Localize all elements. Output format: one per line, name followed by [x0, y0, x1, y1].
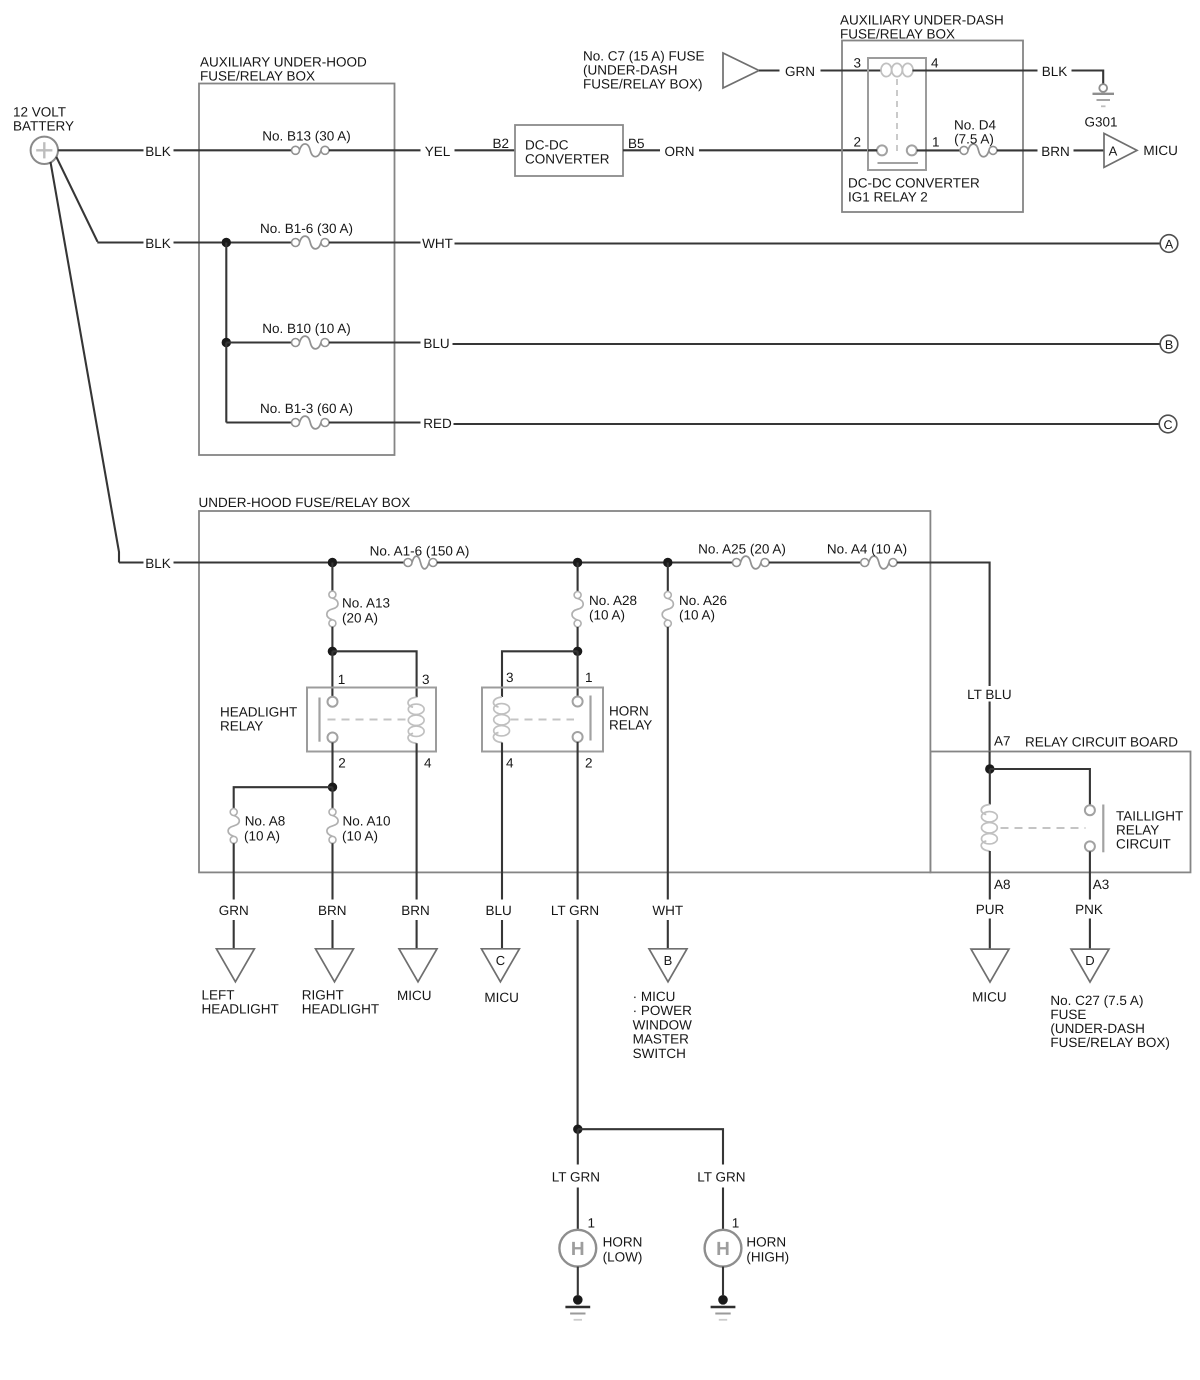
switch circles taillight relay: [1085, 805, 1095, 851]
dashed armature line aux relay: [896, 79, 898, 156]
fuse No. A8 (10 A): [228, 809, 239, 844]
fuse No. B1-6 (30 A): [292, 236, 330, 249]
wire headlight relay pin 2 down: [331, 743, 333, 788]
svg-text:WHT: WHT: [652, 903, 683, 918]
svg-text:B5: B5: [628, 136, 645, 151]
relay HORN RELAY rectangle: [482, 688, 603, 752]
svg-text:C: C: [496, 953, 505, 968]
connector triangle right headlight: [316, 949, 354, 982]
svg-text:FUSE/RELAY BOX: FUSE/RELAY BOX: [840, 27, 955, 42]
label 12 VOLT BATTERY: [13, 104, 74, 133]
svg-text:(LOW): (LOW): [603, 1250, 643, 1265]
svg-text:MICU: MICU: [1143, 143, 1178, 158]
svg-text:1: 1: [932, 135, 940, 150]
svg-text:MICU: MICU: [972, 990, 1007, 1005]
fuse No. A25 (20 A): [733, 556, 770, 569]
label MICU POWER WINDOW MASTER SWITCH: [633, 989, 692, 1061]
wire BRN to connector A triangle: [1074, 149, 1105, 151]
switch bar taillight relay: [1102, 805, 1104, 853]
wire WHT to connector B triangle: [667, 920, 669, 949]
wire fuse B13 to YEL: [329, 149, 421, 151]
svg-text:BLK: BLK: [145, 556, 171, 571]
wire junction to fuse A8: [234, 787, 333, 809]
svg-text:AUXILIARY UNDER-DASH: AUXILIARY UNDER-DASH: [840, 13, 1004, 28]
svg-text:A: A: [1165, 237, 1174, 251]
wire row5 BLK segment: [119, 561, 144, 563]
wire relay pin 2 stub: [868, 149, 877, 151]
svg-text:(HIGH): (HIGH): [746, 1250, 789, 1265]
fuse No. B1-3 (60 A): [292, 416, 330, 429]
wire bus junction down to fuse A26: [667, 563, 669, 592]
svg-text:3: 3: [506, 670, 514, 685]
svg-text:(UNDER-DASH: (UNDER-DASH: [583, 63, 678, 78]
fuse No. B10 (10 A): [292, 336, 330, 349]
svg-text:FUSE/RELAY BOX: FUSE/RELAY BOX: [200, 69, 315, 84]
svg-text:4: 4: [506, 756, 514, 771]
wire BRN to MICU triangle: [416, 920, 418, 949]
switch circles horn relay: [573, 697, 583, 743]
wire BRN to right headlight triangle: [331, 920, 333, 949]
connector triangle MICU taillight: [971, 949, 1009, 982]
label No. C27 (7.5 A) FUSE (UNDER-DASH FUSE/RELAY BOX): [1050, 993, 1170, 1050]
horn low symbol: [559, 1230, 596, 1267]
label No. A26 (10 A): [679, 593, 727, 623]
svg-text:MICU: MICU: [484, 990, 519, 1005]
wire BLK into under-hood box bus: [174, 561, 405, 563]
connector triangle A to MICU: [1104, 133, 1137, 167]
connector triangle D: [1071, 949, 1109, 982]
svg-text:MICU: MICU: [397, 988, 432, 1003]
svg-text:B2: B2: [492, 136, 509, 151]
wire DC-DC pin B5 to ORN: [623, 149, 660, 151]
svg-text:BLK: BLK: [145, 236, 171, 251]
svg-text:No. A28: No. A28: [589, 593, 637, 608]
junction bus WHT branch: [663, 558, 672, 567]
wire horn high to ground: [722, 1267, 724, 1295]
switch bar aux relay: [878, 162, 919, 164]
svg-text:2: 2: [338, 756, 346, 771]
label No. A8 (10 A): [244, 814, 285, 844]
wire fuse B1-6 to WHT: [329, 241, 421, 243]
svg-text:D: D: [1085, 953, 1094, 968]
svg-text:GRN: GRN: [785, 64, 815, 79]
switch bar headlight relay: [318, 698, 320, 742]
svg-text:No. B10 (10 A): No. B10 (10 A): [262, 321, 351, 336]
wire ORN to aux under-dash box pin 2: [699, 149, 877, 151]
connector ring C: [1159, 415, 1177, 433]
svg-text:(20 A): (20 A): [342, 611, 378, 626]
wire BLK to ground G301: [1072, 71, 1104, 85]
connector triangle MICU headlight relay coil: [399, 949, 437, 982]
svg-text:No. B13 (30 A): No. B13 (30 A): [262, 128, 351, 143]
wire junction to taillight coil: [989, 769, 991, 805]
svg-text:No. A10: No. A10: [343, 814, 391, 829]
DC-DC converter box: [515, 125, 623, 176]
relay HEADLIGHT RELAY rectangle: [307, 688, 436, 752]
label TAILLIGHT RELAY CIRCUIT: [1116, 808, 1183, 851]
svg-text:LT GRN: LT GRN: [697, 1170, 745, 1185]
junction headlight relay feed: [328, 647, 337, 656]
fuse No. A1-6 (150 A): [404, 556, 437, 569]
wire bus junction down to fuse A28: [577, 563, 579, 592]
svg-text:LT GRN: LT GRN: [551, 903, 599, 918]
relay DC-DC CONVERTER IG1 RELAY 2 rectangle: [868, 58, 926, 170]
svg-text:3: 3: [853, 56, 861, 71]
svg-text:BRN: BRN: [401, 903, 430, 918]
box under-hood fuse/relay box: [199, 511, 930, 872]
wire PUR to MICU triangle: [989, 919, 991, 950]
svg-text:(7.5 A): (7.5 A): [954, 132, 994, 147]
fuse No. A26 (10 A): [662, 592, 673, 628]
svg-text:BRN: BRN: [318, 903, 347, 918]
wire relay pin 1 to fuse D4: [917, 149, 961, 151]
svg-text:FUSE/RELAY BOX): FUSE/RELAY BOX): [1050, 1035, 1170, 1050]
wire battery to BLK row1: [58, 149, 143, 151]
wire bus fuse A1-6 to fuse A25: [437, 561, 733, 563]
svg-text:DC-DC: DC-DC: [525, 138, 569, 153]
label No. A13 (20 A): [342, 596, 390, 626]
svg-text:· MICU: · MICU: [633, 989, 676, 1004]
svg-text:SWITCH: SWITCH: [633, 1046, 686, 1061]
label No. D4 (7.5 A): [954, 118, 997, 147]
connector ring A: [1160, 235, 1178, 253]
label DC-DC CONVERTER: [525, 138, 610, 167]
svg-text:FUSE: FUSE: [1050, 1007, 1086, 1022]
wire BLU to connector B: [453, 343, 1161, 345]
junction horn relay feed: [573, 647, 582, 656]
label AUXILIARY UNDER-DASH FUSE/RELAY BOX: [840, 13, 1004, 42]
connector triangle left headlight: [216, 949, 254, 982]
svg-text:BLK: BLK: [145, 144, 171, 159]
wire LT GRN to horn low: [577, 1188, 579, 1230]
coil headlight relay: [408, 697, 424, 743]
wire bus fuse A25 to fuse A4: [769, 561, 861, 563]
wire horn split to right horn branch: [578, 1129, 723, 1164]
svg-text:HORN: HORN: [609, 704, 649, 719]
svg-text:2: 2: [853, 135, 861, 150]
svg-text:RED: RED: [423, 416, 452, 431]
svg-text:H: H: [716, 1239, 730, 1260]
label No. A10 (10 A): [342, 814, 391, 844]
svg-text:B: B: [664, 953, 673, 968]
svg-text:(10 A): (10 A): [244, 829, 280, 844]
wire junction to fuse B10: [226, 341, 291, 343]
svg-text:No. A8: No. A8: [245, 814, 286, 829]
svg-text:No. D4: No. D4: [954, 118, 997, 133]
junction bus horn branch: [573, 558, 582, 567]
wire GRN to relay pin 3: [821, 69, 882, 71]
wire horn low to ground: [577, 1267, 579, 1295]
wire horn relay pin 2 down to LT GRN: [577, 742, 579, 900]
svg-text:H: H: [571, 1239, 585, 1260]
connector triangle C: [481, 949, 519, 982]
junction horn split: [573, 1125, 582, 1134]
connector triangle B: [649, 949, 687, 982]
wire taillight coil down to PUR: [989, 851, 991, 900]
box auxiliary under-hood fuse/relay box: [199, 84, 395, 456]
svg-text:1: 1: [338, 672, 346, 687]
svg-text:1: 1: [732, 1216, 740, 1231]
dashed armature line taillight relay: [1001, 827, 1086, 829]
svg-text:A7: A7: [994, 734, 1011, 749]
switch circles headlight relay: [328, 697, 338, 743]
label HORN (HIGH): [746, 1235, 789, 1265]
fuse No. A28 (10 A): [572, 592, 583, 628]
switch contact circles aux relay: [877, 145, 917, 155]
label LEFT HEADLIGHT: [202, 988, 279, 1017]
svg-text:No. A13: No. A13: [342, 596, 390, 611]
box auxiliary under-dash fuse/relay box: [842, 41, 1023, 213]
label RIGHT HEADLIGHT: [302, 988, 379, 1017]
svg-text:BLK: BLK: [1042, 64, 1068, 79]
svg-text:BLU: BLU: [423, 336, 449, 351]
dashed armature line headlight relay: [328, 719, 407, 721]
wire junction row2 down to row3: [225, 243, 227, 343]
svg-text:WHT: WHT: [422, 236, 453, 251]
svg-text:AUXILIARY UNDER-HOOD: AUXILIARY UNDER-HOOD: [200, 55, 367, 70]
wire fuse B10 to BLU: [329, 341, 421, 343]
svg-text:RELAY: RELAY: [220, 719, 263, 734]
svg-text:RELAY: RELAY: [1116, 822, 1159, 837]
svg-text:2: 2: [585, 756, 593, 771]
junction taillight relay feed: [985, 764, 994, 773]
svg-text:LEFT: LEFT: [202, 988, 235, 1003]
label No. C7 (15 A) FUSE (UNDER-DASH FUSE/RELAY BOX): [583, 49, 705, 92]
label AUXILIARY UNDER-HOOD FUSE/RELAY BOX: [200, 55, 367, 84]
svg-text:A: A: [1109, 144, 1118, 159]
label HORN (LOW): [603, 1235, 643, 1265]
junction row2: [222, 238, 231, 247]
wire LT BLU vertical: [989, 702, 991, 752]
wire junction row3 down to row4: [225, 343, 227, 423]
label HORN RELAY: [609, 704, 652, 733]
wire PNK to connector D triangle: [1089, 919, 1091, 950]
svg-text:HEADLIGHT: HEADLIGHT: [202, 1002, 279, 1017]
wire junction to headlight relay pin 1: [331, 651, 333, 696]
svg-text:RELAY CIRCUIT BOARD: RELAY CIRCUIT BOARD: [1025, 735, 1178, 750]
junction row3: [222, 338, 231, 347]
svg-text:LT BLU: LT BLU: [967, 687, 1012, 702]
svg-text:PNK: PNK: [1075, 902, 1103, 917]
svg-text:No. B1-3 (60 A): No. B1-3 (60 A): [260, 401, 353, 416]
svg-text:(10 A): (10 A): [589, 608, 625, 623]
junction bus headlight branch: [328, 558, 337, 567]
label No. A28 (10 A): [589, 593, 637, 623]
svg-text:BLU: BLU: [485, 903, 511, 918]
fuse No. D4 (7.5 A): [960, 144, 997, 157]
svg-text:4: 4: [424, 756, 432, 771]
svg-text:No. A26: No. A26: [679, 593, 727, 608]
wire left horn branch down: [577, 1129, 579, 1164]
wire YEL to DC-DC converter pin B2: [455, 149, 516, 151]
coil DC-DC converter IG1 relay 2: [881, 63, 913, 76]
wire fuse A10 to BRN: [331, 843, 333, 899]
svg-text:WINDOW: WINDOW: [633, 1017, 692, 1032]
wire horn relay pin 4 down to BLU: [501, 743, 503, 900]
svg-text:YEL: YEL: [425, 144, 451, 159]
wire LT GRN to horn high: [722, 1188, 724, 1230]
svg-text:DC-DC CONVERTER: DC-DC CONVERTER: [848, 176, 980, 191]
wire taillight switch down to PNK: [1089, 851, 1091, 899]
svg-text:1: 1: [585, 670, 593, 685]
coil taillight relay: [981, 805, 997, 852]
ground horn low: [565, 1295, 590, 1320]
svg-text:C: C: [1163, 418, 1172, 432]
fuse No. A10 (10 A): [327, 809, 338, 844]
svg-text:No. B1-6 (30 A): No. B1-6 (30 A): [260, 221, 353, 236]
svg-text:TAILLIGHT: TAILLIGHT: [1116, 808, 1183, 823]
svg-text:ORN: ORN: [665, 144, 695, 159]
wire bus fuse A4 to LT BLU corner: [897, 563, 990, 687]
svg-text:RIGHT: RIGHT: [302, 988, 344, 1003]
fuse No. A13 (20 A): [327, 591, 338, 627]
svg-text:1: 1: [588, 1216, 596, 1231]
wire LT GRN down to horn split junction: [577, 920, 579, 1129]
svg-text:BATTERY: BATTERY: [13, 118, 74, 133]
svg-text:B: B: [1165, 338, 1173, 352]
svg-text:(10 A): (10 A): [679, 608, 715, 623]
svg-text:A8: A8: [994, 877, 1011, 892]
svg-text:GRN: GRN: [219, 903, 249, 918]
svg-text:FUSE/RELAY BOX): FUSE/RELAY BOX): [583, 77, 703, 92]
wire fuse A13 to headlight relay junction: [331, 627, 333, 652]
svg-text:· POWER: · POWER: [633, 1003, 692, 1018]
svg-text:IG1 RELAY 2: IG1 RELAY 2: [848, 190, 928, 205]
wire junction to horn relay pin 1: [577, 651, 579, 696]
svg-text:3: 3: [422, 672, 430, 687]
wire headlight relay pin 4 down to BRN: [416, 743, 418, 899]
fuse No. B13 (30 A): [292, 144, 330, 157]
svg-text:No. A25 (20 A): No. A25 (20 A): [698, 542, 786, 557]
wire fuse A8 to GRN: [233, 843, 235, 899]
wire fuse A28 to horn relay junction: [577, 627, 579, 651]
wire row4 to fuse B1-3: [226, 421, 291, 423]
wire fuse A26 down to WHT: [667, 627, 669, 900]
coil horn relay: [493, 697, 509, 743]
fuse No. A4 (10 A): [861, 556, 897, 569]
ground G301 symbol: [1093, 84, 1115, 106]
svg-text:No. A4 (10 A): No. A4 (10 A): [827, 542, 907, 557]
wire triangle to GRN: [759, 69, 780, 71]
svg-text:LT GRN: LT GRN: [552, 1170, 600, 1185]
connector ring B: [1160, 335, 1178, 353]
wire BLK to fuse B13: [174, 149, 292, 151]
wire fuse D4 to BRN: [997, 149, 1038, 151]
svg-text:CIRCUIT: CIRCUIT: [1116, 836, 1171, 851]
svg-text:HEADLIGHT: HEADLIGHT: [302, 1002, 379, 1017]
label DC-DC CONVERTER IG1 RELAY 2: [848, 176, 980, 205]
wire junction to horn relay pin 3: [502, 651, 578, 697]
svg-text:HEADLIGHT: HEADLIGHT: [220, 705, 297, 720]
svg-text:HORN: HORN: [603, 1235, 643, 1250]
connector triangle from No. C7 fuse: [723, 53, 759, 88]
wire junction to taillight switch: [990, 769, 1090, 805]
svg-text:(10 A): (10 A): [342, 829, 378, 844]
wire bus junction down to fuse A13: [331, 563, 333, 592]
svg-text:BRN: BRN: [1041, 144, 1070, 159]
svg-text:A3: A3: [1093, 877, 1110, 892]
svg-text:No. C7 (15 A) FUSE: No. C7 (15 A) FUSE: [583, 49, 705, 64]
svg-text:No. C27 (7.5 A): No. C27 (7.5 A): [1050, 993, 1143, 1008]
svg-text:UNDER-HOOD FUSE/RELAY BOX: UNDER-HOOD FUSE/RELAY BOX: [199, 495, 411, 510]
wire BLK to fuse B1-6: [174, 241, 292, 243]
wire RED to connector C: [454, 423, 1160, 425]
wire WHT to connector A: [455, 242, 1161, 244]
dashed armature line horn relay: [511, 719, 575, 721]
svg-text:PUR: PUR: [976, 902, 1005, 917]
wire GRN to left headlight triangle: [233, 920, 235, 949]
svg-text:(UNDER-DASH: (UNDER-DASH: [1050, 1021, 1145, 1036]
wire row2 BLK segment: [97, 241, 143, 243]
wire junction to fuse A10: [331, 787, 333, 809]
wire relay pin 4 to BLK: [913, 69, 1038, 71]
wire battery diagonal to row2: [56, 157, 97, 242]
svg-text:MASTER: MASTER: [633, 1032, 690, 1047]
svg-text:HORN: HORN: [746, 1235, 786, 1250]
wire battery diagonal to under-hood box: [51, 162, 120, 563]
battery 12V: [31, 137, 58, 164]
junction fuse A8/A10 feed: [328, 783, 337, 792]
wire BLU to connector C triangle: [501, 920, 503, 949]
wire junction to headlight relay pin 3: [332, 651, 416, 697]
svg-text:RELAY: RELAY: [609, 718, 652, 733]
horn high symbol: [705, 1230, 742, 1267]
switch bar horn relay: [589, 696, 591, 741]
wire fuse B1-3 to RED: [329, 421, 421, 423]
svg-text:CONVERTER: CONVERTER: [525, 152, 610, 167]
svg-text:12 VOLT: 12 VOLT: [13, 104, 66, 119]
svg-text:G301: G301: [1084, 115, 1117, 130]
ground horn high: [711, 1295, 736, 1320]
svg-text:4: 4: [931, 56, 939, 71]
svg-text:No. A1-6 (150 A): No. A1-6 (150 A): [370, 544, 470, 559]
box relay circuit board: [930, 752, 1190, 873]
label HEADLIGHT RELAY: [220, 705, 297, 734]
wire A7 into board to junction: [989, 752, 991, 770]
